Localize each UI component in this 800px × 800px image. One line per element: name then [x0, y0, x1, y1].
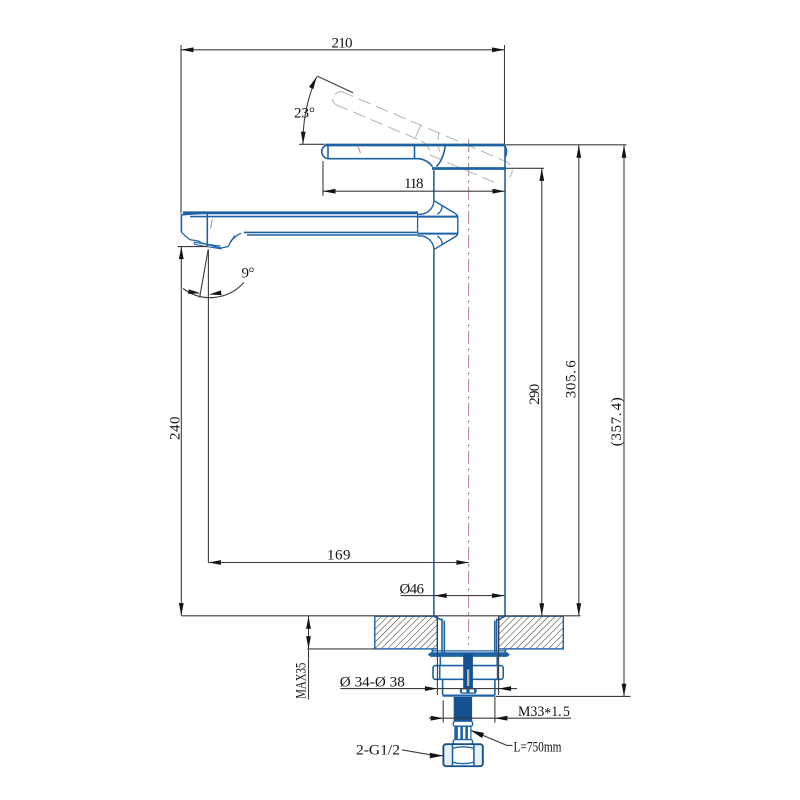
- stud bottom bracket: [460, 688, 477, 694]
- spout-body collar: [418, 199, 458, 252]
- threaded connection tube: [454, 697, 472, 721]
- hose hex nut: [443, 744, 482, 766]
- handle cap bottom thick joint: [432, 167, 506, 170]
- upper shank section below washer: [440, 657, 497, 666]
- svg-text:23°: 23°: [294, 106, 315, 122]
- faucet body column: [434, 145, 505, 616]
- svg-text:2-G1/2: 2-G1/2: [356, 743, 400, 759]
- svg-text:MAX35: MAX35: [294, 663, 310, 699]
- rubber washer flange: [432, 650, 506, 652]
- central threaded stud: [463, 654, 473, 689]
- svg-text:(357.4): (357.4): [609, 397, 625, 446]
- ghost raised handle top edge: [333, 91, 513, 182]
- aerator: [181, 232, 241, 249]
- dimension 240: [168, 247, 208, 616]
- hose collar band 2: [453, 740, 472, 745]
- dimension (357.4): [496, 145, 631, 696]
- countertop top extension line: [181, 615, 580, 617]
- ribbed hose end: [454, 726, 471, 739]
- countertop bottom extension line: [308, 648, 375, 650]
- leader L=750mm: [471, 730, 562, 755]
- handle centerline tick: [358, 147, 360, 154]
- dimension 118: [323, 161, 505, 196]
- dimension 210: [181, 35, 505, 213]
- lock nut: [433, 666, 503, 680]
- svg-text:M33*1.5: M33*1.5: [518, 704, 570, 722]
- hose collar band 1: [453, 721, 472, 726]
- svg-text:210: 210: [332, 35, 353, 51]
- svg-text:Ø46: Ø46: [400, 582, 425, 598]
- spout: [181, 213, 418, 246]
- aerator axis tick: [211, 220, 213, 229]
- svg-text:305.6: 305.6: [564, 360, 580, 399]
- dimension phi46: [400, 582, 505, 598]
- dimension 9 degrees: [183, 249, 255, 562]
- handle lever: [322, 145, 505, 167]
- dimension 290: [506, 168, 544, 615]
- dimension 305.6: [506, 145, 627, 616]
- svg-text:9°: 9°: [242, 266, 255, 282]
- dimension M33x1.5: [429, 697, 571, 723]
- lower shank section: [443, 679, 495, 695]
- handle back end bulge: [505, 146, 507, 158]
- dimension 23 degrees: [294, 76, 353, 144]
- countertop hatched section right: [499, 616, 564, 649]
- svg-text:L=750mm: L=750mm: [514, 739, 562, 755]
- mounting shank through hole: [432, 616, 505, 652]
- countertop hatched section left: [375, 616, 438, 649]
- dimension 169: [208, 547, 469, 565]
- svg-text:240: 240: [168, 417, 184, 441]
- svg-text:Ø 34-Ø 38: Ø 34-Ø 38: [340, 675, 405, 691]
- leader 2-G1/2: [356, 743, 443, 759]
- dimension phi34-phi38: [340, 616, 517, 695]
- svg-text:169: 169: [327, 547, 351, 563]
- dimension MAX35: [294, 616, 311, 699]
- svg-text:118: 118: [404, 176, 424, 192]
- body vertical centerline: [468, 139, 470, 645]
- svg-text:290: 290: [527, 384, 543, 405]
